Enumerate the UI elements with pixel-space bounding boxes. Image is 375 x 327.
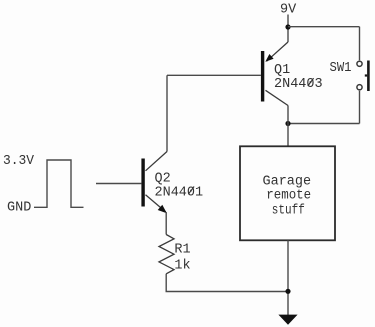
wire 9V stem [287, 15, 289, 43]
emitter lead with arrow pointing out [146, 195, 166, 212]
wire Q1 base rail [167, 74, 261, 76]
wire bottom rail from SW1 to collector node [288, 123, 360, 125]
svg-text:2N4401: 2N4401 [155, 185, 204, 200]
emitter lead with arrow into base [267, 42, 289, 61]
transistor Q2 2N4401 (NPN) [141, 152, 167, 214]
svg-text:remote: remote [266, 189, 311, 204]
junction node collector/box [285, 121, 290, 126]
collector lead [266, 90, 289, 105]
signal waveform pulse [34, 160, 84, 207]
junction node ground [285, 289, 290, 294]
block garage remote box [240, 146, 335, 240]
svg-text:SW1: SW1 [330, 61, 352, 76]
wire Q2 collector vertical [166, 75, 168, 151]
switch SW1 [357, 61, 369, 92]
wire Q2 base lead [96, 183, 141, 185]
slashed zero mark in 2N4401 [188, 187, 194, 195]
base bar [141, 159, 144, 207]
svg-text:3.3V: 3.3V [3, 154, 35, 169]
base bar [261, 51, 264, 102]
svg-text:stuff: stuff [272, 203, 305, 218]
resistor R1 zigzag [159, 235, 174, 274]
svg-text:R1: R1 [174, 243, 190, 258]
transistor Q1 2N4403 (PNP) [261, 42, 288, 106]
svg-text:Garage: Garage [263, 175, 312, 190]
svg-text:GND: GND [7, 201, 31, 216]
svg-text:Q2: Q2 [155, 171, 171, 186]
wire SW1 top lead [359, 27, 361, 61]
wire SW1 bottom lead [359, 91, 361, 124]
wire box bottom stem [287, 240, 289, 315]
junction node 9V [285, 24, 290, 29]
slashed zero mark in 2N4403 [308, 78, 314, 86]
wire R1 bottom lead [166, 274, 288, 292]
wire Q1 collector stem [287, 106, 289, 147]
svg-text:Q1: Q1 [274, 63, 290, 78]
svg-text:2N4403: 2N4403 [274, 77, 323, 92]
wire Q2 emitter vertical to R1 [165, 212, 167, 235]
wire top rail to SW1 [288, 26, 360, 28]
svg-text:1k: 1k [174, 258, 190, 273]
ground symbol [278, 315, 297, 325]
collector lead [146, 152, 168, 171]
